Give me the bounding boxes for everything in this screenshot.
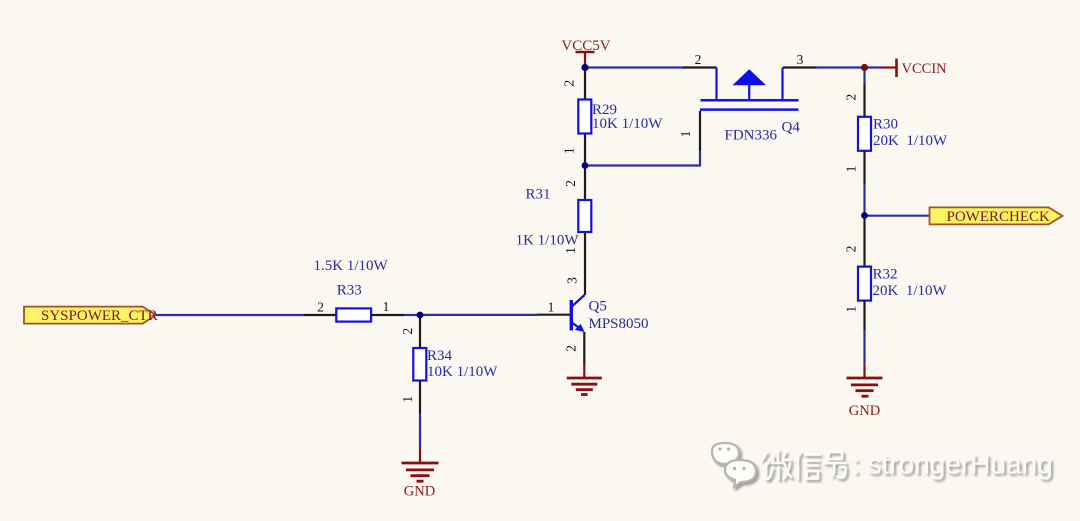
resistor R29 (562, 71, 664, 163)
ground at Q5 emitter (567, 364, 602, 395)
wire Q4 gate to node below R29 (585, 151, 700, 166)
junction at POWERCHECK node (861, 212, 868, 219)
svg-text:R34: R34 (427, 348, 453, 364)
wire Q4 drain to VCCIN junction (817, 66, 862, 68)
svg-text:GND: GND (404, 484, 435, 500)
svg-text:2: 2 (564, 345, 579, 352)
junction at R33/R34 node (417, 312, 424, 319)
svg-text:Q4: Q4 (782, 120, 801, 136)
svg-text:: strongerHuang: : strongerHuang (852, 449, 1053, 480)
svg-text:20K 1/10W: 20K 1/10W (873, 283, 948, 299)
svg-text:2: 2 (562, 80, 577, 87)
wire junction to POWERCHECK flag (865, 215, 930, 217)
svg-text:1K 1/10W: 1K 1/10W (516, 233, 580, 249)
svg-text:MPS8050: MPS8050 (589, 316, 649, 332)
junction below R29 (582, 162, 589, 169)
svg-text:3: 3 (565, 277, 580, 284)
resistor R30 (844, 68, 949, 216)
sheet entry POWERCHECK (930, 207, 1063, 225)
svg-text:VCCIN: VCCIN (902, 61, 948, 77)
watermark text (762, 449, 1053, 480)
svg-text:2: 2 (695, 52, 702, 67)
Q4 pin 3 segment (783, 66, 817, 68)
svg-text:2: 2 (844, 94, 859, 101)
wire flag to R33 (156, 314, 303, 316)
svg-text:R31: R31 (525, 187, 550, 203)
resistor R31 (516, 166, 592, 263)
resistor R32 (844, 216, 948, 365)
svg-text:2: 2 (317, 299, 324, 314)
resistor R34 (400, 315, 498, 413)
wire VCC5V rail to Q4 source pin (585, 66, 683, 68)
svg-text:2: 2 (563, 180, 578, 187)
svg-text:SYSPOWER_CTR: SYSPOWER_CTR (41, 308, 158, 324)
wire junction to Q5 base (420, 314, 537, 316)
power port VCCIN (881, 59, 947, 78)
svg-text:3: 3 (797, 52, 804, 67)
ground at R34 (402, 447, 439, 481)
svg-text:FDN336: FDN336 (725, 128, 778, 144)
svg-text:1: 1 (562, 147, 577, 154)
svg-text:10K 1/10W: 10K 1/10W (427, 364, 498, 380)
svg-text:GND: GND (849, 403, 880, 419)
svg-text:Q5: Q5 (589, 299, 607, 315)
svg-text:R30: R30 (873, 117, 898, 133)
svg-text:1: 1 (678, 131, 693, 138)
wire R33 to junction (404, 314, 420, 316)
junction at VCCIN node (861, 64, 868, 71)
svg-text:20K 1/10W: 20K 1/10W (873, 133, 948, 149)
svg-text:10K 1/10W: 10K 1/10W (592, 116, 663, 132)
svg-text:1: 1 (844, 166, 859, 173)
svg-text:1: 1 (844, 306, 859, 313)
power port VCC5V (561, 38, 610, 65)
sheet entry SYSPOWER_CTR (24, 307, 158, 324)
svg-text:1: 1 (548, 300, 555, 315)
svg-text:1: 1 (400, 396, 415, 403)
svg-text:POWERCHECK: POWERCHECK (947, 209, 1051, 225)
watermark wechat icon (712, 443, 756, 487)
resistor R33 (303, 258, 404, 322)
svg-text:R32: R32 (873, 267, 898, 283)
svg-text:2: 2 (844, 246, 859, 253)
ground at R32 (847, 365, 883, 396)
svg-text:1: 1 (383, 299, 390, 314)
Q4 body-diode arrow (733, 69, 767, 85)
wire junction to VCCIN port (865, 66, 882, 68)
svg-text:R33: R33 (337, 282, 362, 298)
transistor Q5 (537, 262, 649, 364)
svg-text:1.5K 1/10W: 1.5K 1/10W (314, 258, 389, 274)
Q4 gate pin 1 (699, 111, 701, 151)
Q4 pin 2 segment (683, 66, 717, 68)
svg-text:2: 2 (400, 328, 415, 335)
mosfet Q4 body (700, 68, 799, 110)
junction at VCC5V rail (581, 64, 588, 71)
wire R34 to ground (419, 413, 421, 447)
